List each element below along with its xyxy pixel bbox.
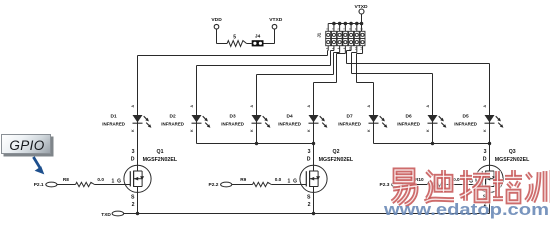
svg-text:www.edatop.com: www.edatop.com: [383, 200, 549, 219]
